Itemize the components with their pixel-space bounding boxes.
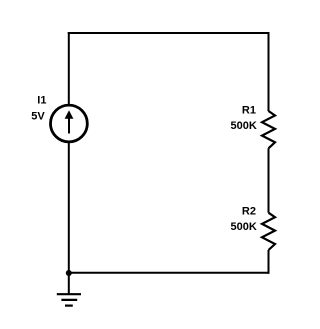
- resistor R1: [262, 111, 275, 148]
- wire top horizontal: [68, 32, 270, 34]
- svg-text:5V: 5V: [31, 111, 45, 123]
- wire junction to ground: [68, 273, 70, 294]
- wire right middle (R1 to R2): [268, 148, 270, 212]
- wire left lower (I1 bottom to junction): [68, 143, 70, 274]
- wire left upper (top corner to I1 top): [68, 32, 70, 105]
- svg-text:500K: 500K: [231, 120, 257, 132]
- ground: [57, 294, 81, 305]
- current source I1: [51, 105, 88, 142]
- svg-text:R1: R1: [242, 105, 256, 117]
- junction node: [66, 270, 72, 276]
- wire right lower (R2 to bottom corner): [268, 250, 270, 274]
- svg-text:R2: R2: [242, 206, 256, 218]
- wire right upper (top corner to R1): [268, 32, 270, 111]
- svg-text:I1: I1: [37, 95, 46, 107]
- resistor R2: [262, 213, 275, 250]
- svg-text:500K: 500K: [231, 221, 257, 233]
- wire bottom horizontal: [69, 272, 270, 274]
